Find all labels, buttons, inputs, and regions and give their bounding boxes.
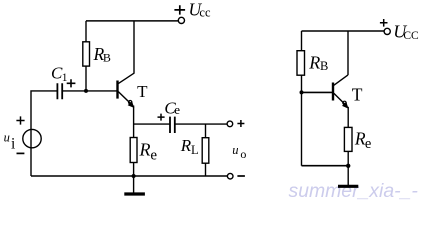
svg-text:e: e bbox=[365, 136, 371, 152]
wire: right circuit bottom rail bbox=[302, 165, 349, 167]
wire: top rail to RB (left circuit) bbox=[85, 21, 87, 42]
ground (right circuit) bbox=[347, 166, 349, 185]
transistor T (right) emitter lead with arrow bbox=[334, 93, 345, 104]
wire: base wire C1 to transistor (left circuit) bbox=[62, 90, 116, 92]
svg-text:1: 1 bbox=[62, 72, 68, 84]
transistor T (right) base bar bbox=[332, 83, 334, 101]
svg-text:B: B bbox=[320, 59, 328, 73]
wire: input wire from C1 down left side bbox=[31, 91, 57, 176]
svg-text:L: L bbox=[191, 143, 199, 157]
wire: base wire (right circuit) bbox=[302, 91, 333, 93]
transistor T (right) collector lead bbox=[334, 31, 348, 85]
source ui circle bbox=[23, 129, 41, 147]
polarity + of C1 bbox=[67, 79, 76, 87]
wire: right circuit left rail down bbox=[301, 31, 303, 166]
polarity + at Ucc terminal (right circuit) bbox=[380, 19, 388, 27]
transistor T (left) base bar bbox=[116, 81, 118, 99]
svg-text:e: e bbox=[150, 147, 157, 163]
wire: RB to base node (left circuit) bbox=[85, 66, 87, 91]
svg-text:T: T bbox=[137, 82, 148, 101]
svg-text:R: R bbox=[308, 52, 320, 72]
capacitor C1 plates bbox=[57, 83, 62, 99]
node: base junction dot (right circuit) bbox=[300, 90, 304, 94]
wire: left circuit top supply rail bbox=[86, 20, 178, 22]
polarity + at output terminal bbox=[237, 120, 244, 127]
polarity + of ui bbox=[16, 116, 24, 124]
node: emitter bottom junction dot (right circuit) bbox=[346, 164, 350, 168]
polarity - of ui bbox=[17, 152, 25, 154]
svg-text:CC: CC bbox=[403, 30, 419, 42]
wire: Re bottom stub (right circuit) bbox=[347, 151, 349, 165]
polarity + of Ce bbox=[158, 114, 165, 121]
resistor Re (right circuit) bbox=[344, 127, 352, 151]
wire: emitter branch to Ce bbox=[134, 123, 170, 125]
wire: RL top stub bbox=[205, 124, 207, 138]
svg-text:o: o bbox=[240, 147, 246, 161]
resistor Re (left circuit) bbox=[130, 138, 137, 163]
wire: emitter down to Re (right circuit) bbox=[347, 107, 349, 128]
terminal output - bbox=[227, 173, 233, 179]
wire: Ce to output plus terminal bbox=[175, 123, 227, 125]
ground (left circuit) bbox=[133, 176, 135, 193]
wire: Re bottom stub (left circuit) bbox=[133, 163, 135, 177]
svg-text:u: u bbox=[4, 131, 10, 145]
wire: right circuit top supply rail bbox=[302, 30, 385, 32]
polarity + at Ucc terminal (left circuit) bbox=[174, 5, 185, 14]
node: base junction dot (left circuit) bbox=[84, 89, 88, 93]
resistor RB (right circuit) bbox=[297, 51, 305, 75]
capacitor Ce plates bbox=[170, 117, 175, 133]
transistor T (left) collector lead bbox=[118, 21, 134, 84]
svg-text:summer_xia-_-: summer_xia-_- bbox=[289, 180, 419, 202]
svg-text:cc: cc bbox=[199, 5, 211, 19]
wire: RL bottom stub bbox=[205, 163, 207, 176]
svg-text:R: R bbox=[180, 136, 192, 155]
svg-text:R: R bbox=[139, 139, 151, 159]
svg-text:T: T bbox=[352, 84, 363, 104]
resistor RB (left circuit) bbox=[83, 42, 90, 66]
svg-text:u: u bbox=[232, 143, 238, 157]
wire: emitter down to Re (left circuit) bbox=[133, 106, 135, 138]
terminal +Ucc (right circuit) bbox=[384, 28, 390, 34]
terminal output + bbox=[227, 121, 233, 127]
node: emitter-resistor bottom junction dot (left circuit) bbox=[132, 174, 136, 178]
svg-text:B: B bbox=[103, 51, 111, 65]
wire: left circuit bottom rail bbox=[31, 175, 228, 177]
resistor RL bbox=[202, 138, 209, 164]
terminal +Ucc (left circuit) bbox=[178, 17, 184, 23]
svg-text:i: i bbox=[11, 135, 16, 152]
svg-text:e: e bbox=[174, 102, 180, 117]
transistor T (left) emitter lead with arrow bbox=[118, 92, 130, 104]
polarity - at output terminal bbox=[237, 175, 245, 177]
